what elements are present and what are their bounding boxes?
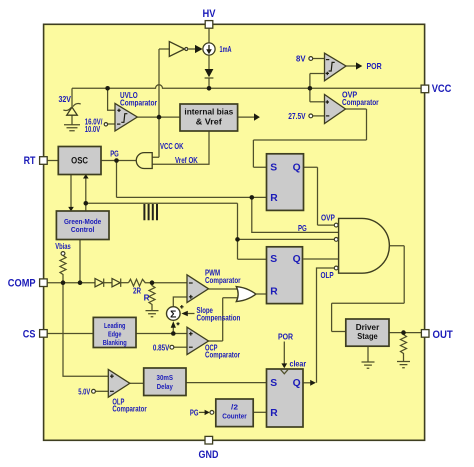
svg-text:R: R <box>270 408 278 419</box>
svg-text:internal bias: internal bias <box>184 108 233 117</box>
svg-text:Vref OK: Vref OK <box>175 156 198 165</box>
svg-text:RT: RT <box>24 155 36 167</box>
svg-text:OLP: OLP <box>321 271 335 280</box>
svg-text:Q: Q <box>293 254 301 265</box>
svg-text:0.85V: 0.85V <box>153 343 170 352</box>
svg-text:32V: 32V <box>59 95 72 104</box>
svg-text:1mA: 1mA <box>220 45 232 54</box>
svg-text:Stage: Stage <box>357 331 378 341</box>
svg-text:POR: POR <box>367 62 382 71</box>
svg-text:PG: PG <box>190 409 199 418</box>
svg-text:S: S <box>270 162 277 173</box>
svg-text:S: S <box>270 378 277 389</box>
svg-text:Q: Q <box>293 162 301 173</box>
svg-text:Blanking: Blanking <box>103 338 127 347</box>
svg-text:10.0V: 10.0V <box>85 125 101 134</box>
svg-text:OSC: OSC <box>71 155 88 165</box>
svg-text:Q: Q <box>293 378 301 389</box>
svg-text:R: R <box>270 193 278 204</box>
svg-text:Comparator: Comparator <box>205 276 241 285</box>
svg-text:Comparator: Comparator <box>120 99 158 108</box>
svg-text:Vbias: Vbias <box>55 242 71 251</box>
svg-text:S: S <box>270 254 277 265</box>
svg-text:Comparator: Comparator <box>342 98 379 107</box>
svg-text:CS: CS <box>23 328 36 340</box>
svg-text:POR: POR <box>278 333 293 342</box>
svg-text:2R: 2R <box>133 287 141 296</box>
svg-text:COMP: COMP <box>8 278 36 290</box>
svg-text:VCC OK: VCC OK <box>160 142 184 151</box>
svg-text:PG: PG <box>298 224 307 233</box>
svg-text:Compensation: Compensation <box>197 313 241 322</box>
svg-text:/2: /2 <box>231 403 238 412</box>
svg-text:OUT: OUT <box>433 329 453 341</box>
svg-text:& Vref: & Vref <box>196 118 222 127</box>
svg-text:Comparator: Comparator <box>112 405 147 414</box>
svg-text:Comparator: Comparator <box>205 350 241 359</box>
svg-text:30mS: 30mS <box>157 373 174 382</box>
svg-text:Control: Control <box>71 225 95 234</box>
svg-text:Delay: Delay <box>157 382 174 391</box>
svg-text:R: R <box>144 294 150 303</box>
svg-text:GND: GND <box>199 449 219 461</box>
svg-text:clear: clear <box>290 360 307 369</box>
svg-text:HV: HV <box>203 8 216 20</box>
svg-text:Σ: Σ <box>170 310 176 321</box>
svg-text:27.5V: 27.5V <box>288 112 306 121</box>
svg-text:*: * <box>176 321 180 331</box>
svg-text:PG: PG <box>110 150 119 159</box>
svg-text:Counter: Counter <box>222 412 247 421</box>
svg-text:5.0V: 5.0V <box>78 388 90 397</box>
svg-text:8V: 8V <box>296 55 306 64</box>
svg-text:R: R <box>270 286 278 297</box>
svg-text:OVP: OVP <box>321 214 335 223</box>
svg-text:VCC: VCC <box>432 83 452 95</box>
